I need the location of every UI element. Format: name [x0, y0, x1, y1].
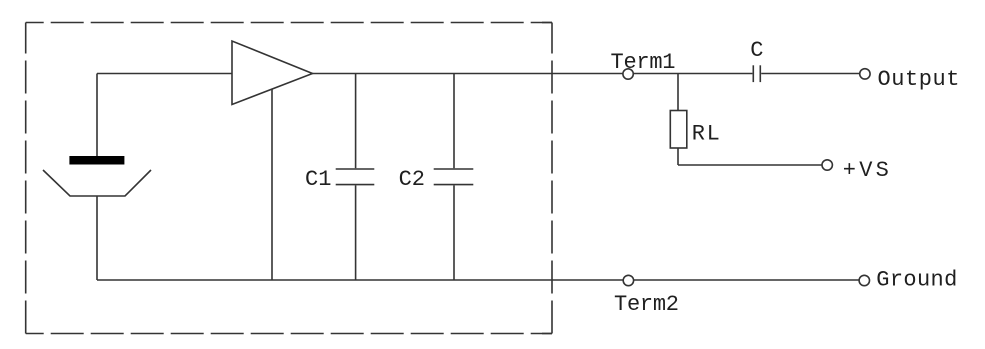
svg-text:Term1: Term1	[611, 50, 676, 75]
svg-text:RL: RL	[692, 121, 720, 146]
svg-text:C: C	[750, 38, 763, 63]
svg-text:Ground: Ground	[876, 268, 957, 293]
svg-text:C1: C1	[305, 167, 331, 192]
svg-text:+VS: +VS	[843, 158, 889, 183]
svg-text:Output: Output	[878, 67, 960, 92]
svg-text:C2: C2	[399, 167, 425, 192]
svg-text:Term2: Term2	[614, 292, 679, 317]
